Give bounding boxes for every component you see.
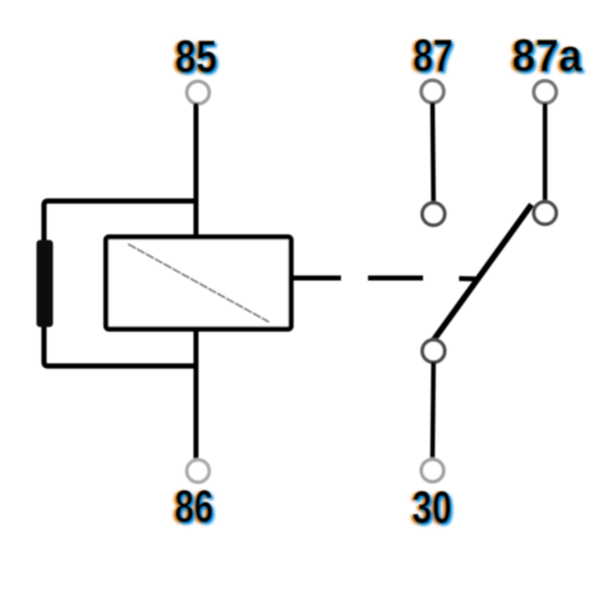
wire terminal 30 [433, 362, 434, 460]
wire coil box to terminal 86 [194, 329, 199, 460]
terminal circle 30 bottom [421, 459, 443, 481]
wire dashed coil link segment 2 [368, 276, 423, 281]
terminal circle 87a bottom (normally-closed contact) [534, 202, 556, 224]
label 86 [172, 481, 215, 534]
wire dashed coil link segment 1 [291, 276, 341, 281]
terminal circle 85 [187, 81, 209, 103]
terminal circle 86 [187, 460, 209, 482]
coil core bar [37, 240, 54, 327]
terminal circle 30 top (common contact) [422, 340, 444, 362]
wire dashed coil link segment 3 [459, 276, 478, 282]
label 87 [411, 30, 455, 83]
switch arm (common to 87a) [430, 205, 532, 346]
svg-text:85: 85 [175, 31, 217, 82]
label 85 [173, 31, 219, 84]
label 87a [510, 30, 585, 83]
wire terminal 87 [433, 103, 434, 204]
svg-text:86: 86 [175, 481, 214, 532]
wire terminal 85 to coil box [194, 103, 199, 237]
svg-text:30: 30 [412, 482, 452, 533]
terminal circle 87a top [534, 81, 556, 103]
terminal circle 87 bottom (normally-open contact) [422, 203, 444, 225]
svg-text:87: 87 [413, 30, 453, 81]
wire terminal 87a [543, 103, 548, 202]
label 30 [410, 482, 454, 535]
svg-text:87a: 87a [512, 30, 583, 81]
relay coil box K1 [106, 237, 291, 329]
terminal circle 87 top [421, 80, 443, 102]
coil diagonal stripe [128, 244, 269, 322]
wire coil bracket (left loop) [44, 201, 196, 366]
